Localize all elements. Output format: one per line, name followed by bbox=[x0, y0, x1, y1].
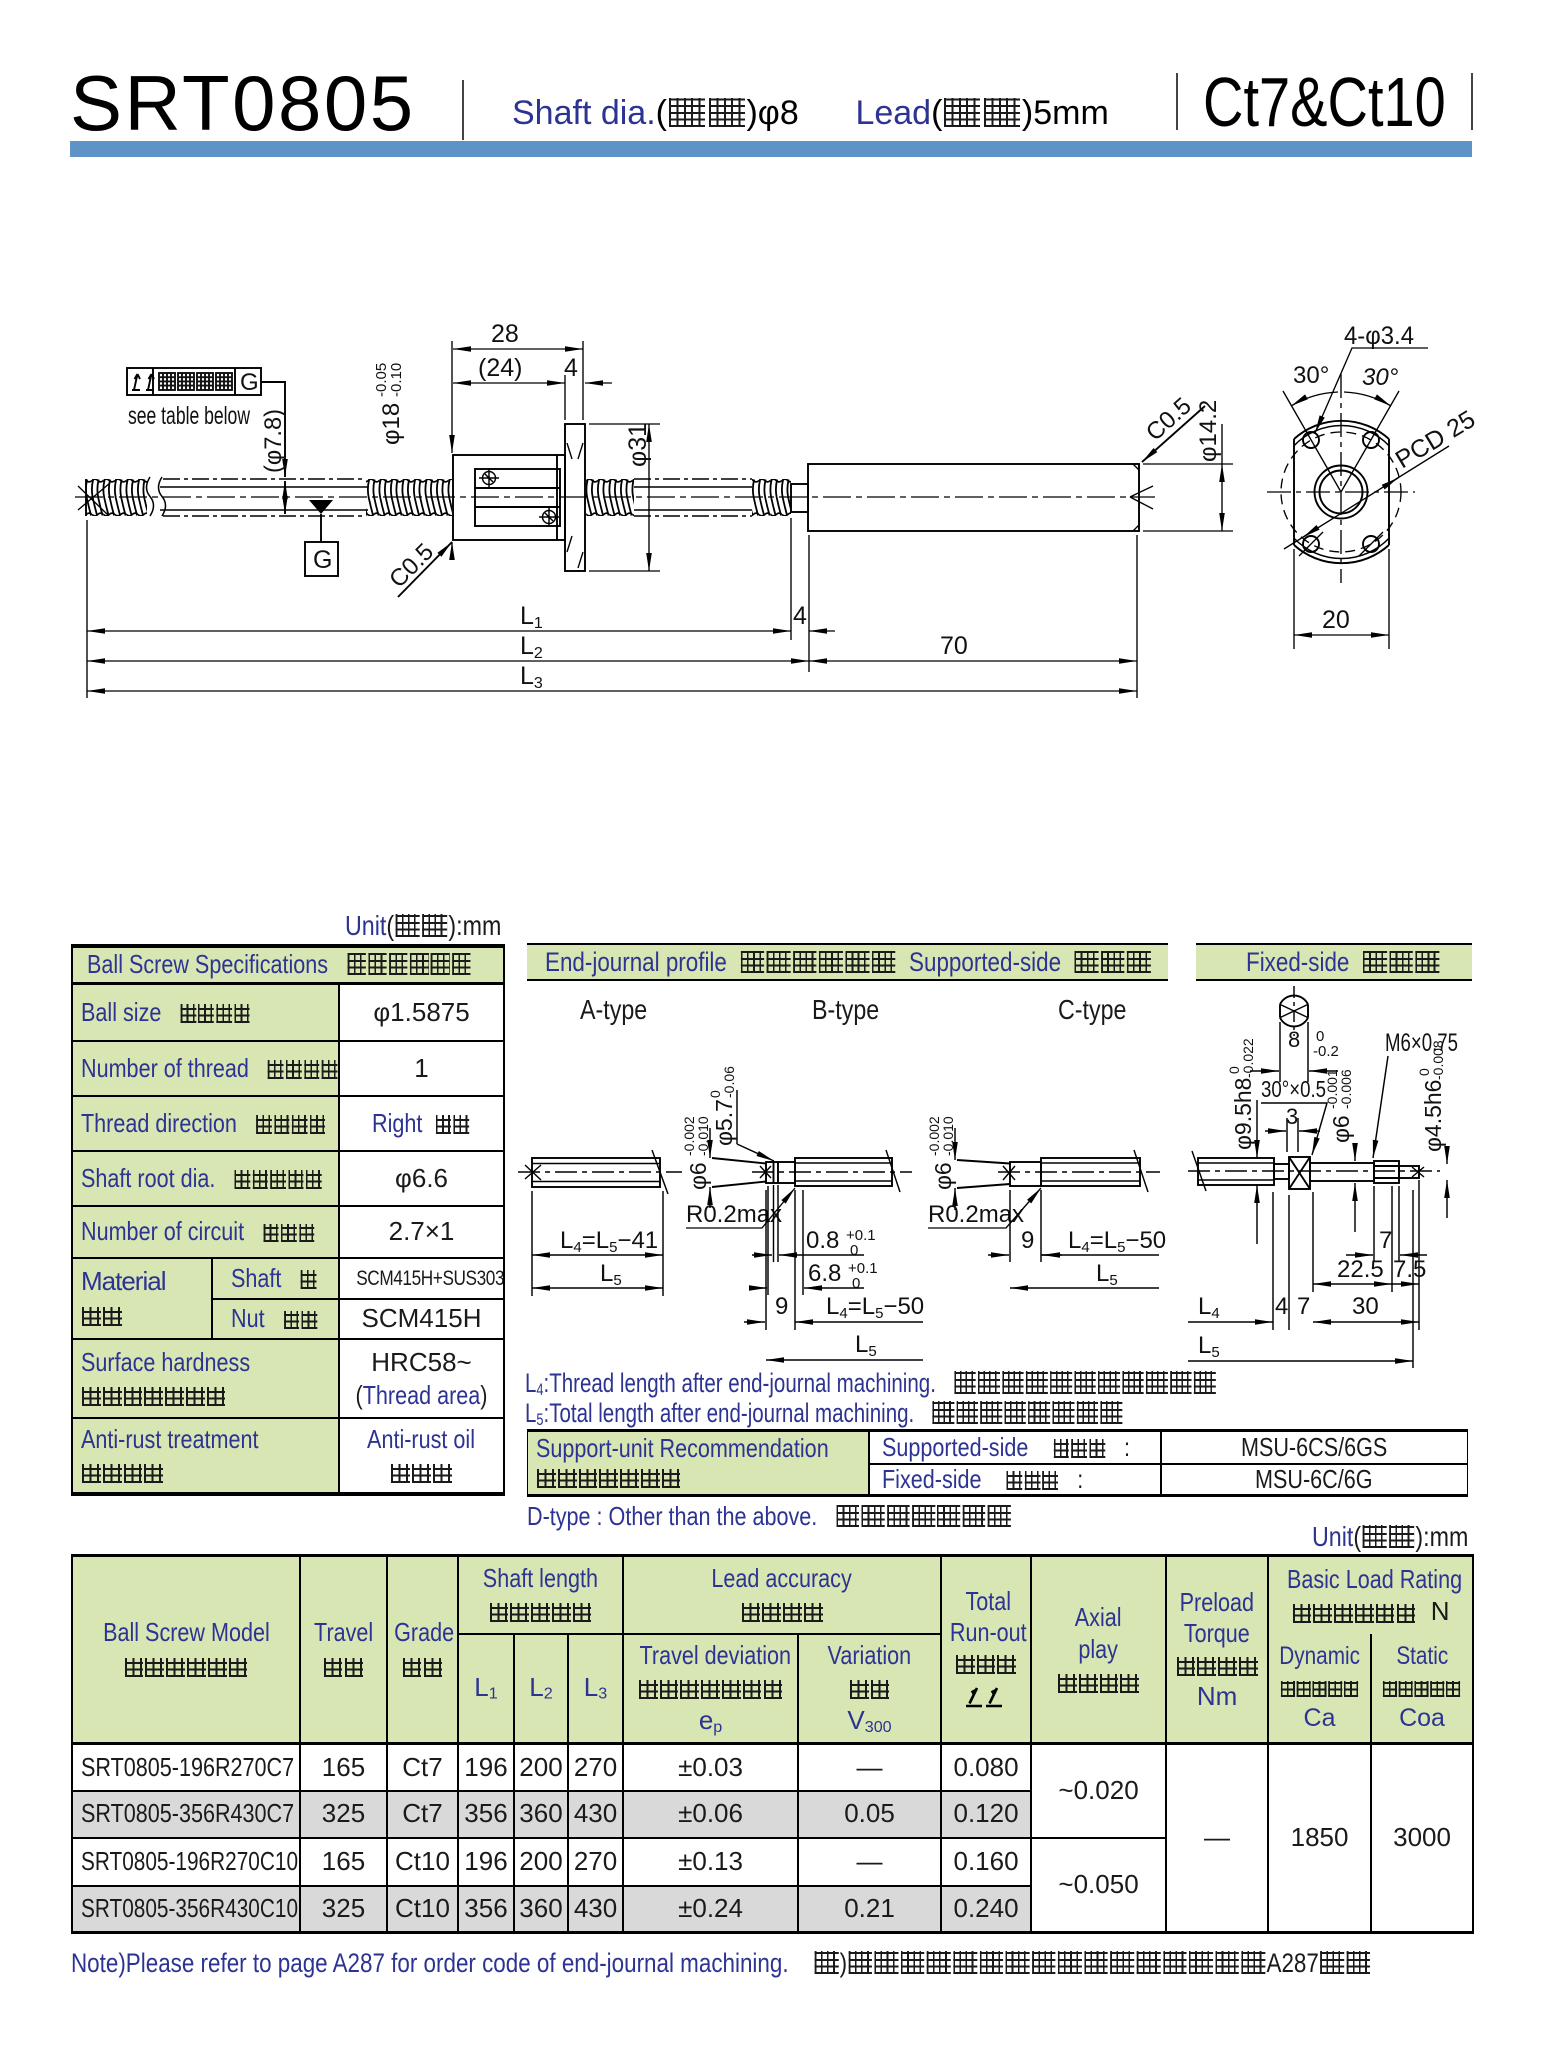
30 degree rays bbox=[1283, 391, 1399, 492]
reduced neck bbox=[791, 484, 808, 512]
Fixed-side neck bbox=[1274, 1164, 1289, 1179]
svg-text:L4=L5−50: L4=L5−50 bbox=[826, 1293, 924, 1322]
open section phantom 2 bbox=[634, 479, 752, 516]
svg-text:L5: L5 bbox=[855, 1331, 877, 1360]
Fixed-side M6 thread bbox=[1374, 1161, 1399, 1183]
svg-text:L4=L5−50: L4=L5−50 bbox=[1068, 1227, 1166, 1256]
svg-text:L2: L2 bbox=[520, 632, 543, 662]
angular dimension arcs bbox=[1291, 392, 1338, 406]
C-type journal bbox=[1003, 1162, 1041, 1186]
svg-text:L5: L5 bbox=[1198, 1332, 1220, 1361]
centerline of screw shaft bbox=[75, 496, 1155, 498]
A-type dim L4=L5-41 bbox=[532, 1227, 663, 1256]
svg-text:φ6: φ6 bbox=[685, 1162, 711, 1190]
C-type dim L5 bbox=[1010, 1260, 1159, 1289]
C-type R0.2max label bbox=[928, 1188, 1041, 1228]
svg-text:20: 20 bbox=[1322, 606, 1350, 634]
svg-text:28: 28 bbox=[491, 320, 519, 348]
Fixed-side dim phi4.5h6 bbox=[1416, 1040, 1447, 1218]
svg-text:-0.10: -0.10 bbox=[388, 363, 405, 397]
svg-text:9: 9 bbox=[1021, 1227, 1034, 1254]
svg-text:30°×0.5: 30°×0.5 bbox=[1261, 1076, 1326, 1102]
dimension phi18 bbox=[373, 341, 452, 560]
bolt holes bbox=[1299, 432, 1383, 556]
svg-text:4: 4 bbox=[793, 602, 807, 630]
dimension phi14.2 bbox=[1143, 400, 1233, 531]
B-type dim L5 bbox=[766, 1331, 923, 1360]
nut flange bbox=[565, 424, 585, 571]
svg-text:-0.06: -0.06 bbox=[721, 1066, 737, 1098]
C-type dim 9 and L4 bbox=[988, 1190, 1166, 1262]
svg-text:M6×0.75: M6×0.75 bbox=[1385, 1029, 1458, 1057]
svg-text:3: 3 bbox=[1286, 1104, 1298, 1129]
svg-text:φ6: φ6 bbox=[1328, 1115, 1354, 1143]
Fixed-side phi6 section bbox=[1310, 1163, 1374, 1181]
svg-text:L4=L5−41: L4=L5−41 bbox=[560, 1227, 658, 1256]
grease hole 2 bbox=[539, 507, 559, 527]
svg-text:(φ7.8): (φ7.8) bbox=[260, 409, 287, 473]
svg-text:C0.5: C0.5 bbox=[384, 538, 439, 593]
svg-text:6.8: 6.8 bbox=[808, 1260, 841, 1287]
chamfer label C0.5 (nut) bbox=[384, 538, 452, 597]
end journal cylinder bbox=[808, 464, 1139, 531]
Fixed-side dim 7 bbox=[1346, 1186, 1427, 1262]
surface finish callout box bbox=[127, 368, 261, 395]
C-type dim phi6 bbox=[926, 1116, 1010, 1210]
svg-text:φ31: φ31 bbox=[624, 423, 652, 467]
B-type R0.2max label bbox=[686, 1188, 795, 1228]
svg-text:φ4.5h6: φ4.5h6 bbox=[1420, 1080, 1446, 1152]
Fixed-side dim 8 bbox=[1250, 1022, 1339, 1082]
PCD 25 leader bbox=[1284, 446, 1449, 549]
B-type dim phi5.7 bbox=[707, 1066, 774, 1161]
screw thread section 3 (after flange) bbox=[586, 479, 634, 516]
svg-text:L5: L5 bbox=[1096, 1260, 1118, 1289]
G surface symbol triangle on centerline bbox=[305, 500, 338, 576]
Fixed-side thread section bbox=[1192, 1151, 1274, 1191]
svg-text:70: 70 bbox=[940, 632, 968, 660]
Fixed-side dim L5 bbox=[1188, 1190, 1413, 1368]
svg-text:φ14.2: φ14.2 bbox=[1195, 400, 1222, 462]
dimension L1 bbox=[87, 602, 835, 632]
svg-text:8: 8 bbox=[1288, 1027, 1300, 1052]
svg-text:L4: L4 bbox=[1198, 1293, 1220, 1322]
svg-text:see table below: see table below bbox=[128, 402, 251, 430]
A-type dim L5 bbox=[532, 1260, 663, 1289]
svg-text:22.5: 22.5 bbox=[1337, 1256, 1384, 1283]
svg-text:0: 0 bbox=[852, 1275, 860, 1292]
Fixed-side M6x0.75 label bbox=[1373, 1029, 1458, 1158]
Fixed-side dims L4 4 7 30 bbox=[1188, 1192, 1419, 1330]
dimension 20 (flange view) bbox=[1294, 549, 1389, 649]
dimension phi31 bbox=[589, 423, 660, 571]
extension lines for L dims bbox=[87, 518, 1137, 698]
C-type thread shaft bbox=[1041, 1150, 1148, 1192]
svg-text:G: G bbox=[240, 369, 259, 396]
svg-text:4: 4 bbox=[564, 354, 578, 382]
dimension L3 bbox=[87, 662, 1137, 692]
svg-text:φ6: φ6 bbox=[930, 1162, 956, 1190]
dimension (phi7.8) bbox=[260, 409, 287, 514]
Fixed-side collar with chamfer (X box) bbox=[1289, 1157, 1310, 1189]
svg-text:φ9.5h8: φ9.5h8 bbox=[1230, 1078, 1256, 1150]
svg-text:-0.022: -0.022 bbox=[1240, 1038, 1256, 1078]
svg-text:-0.2: -0.2 bbox=[1313, 1043, 1339, 1060]
B-type thread shaft bbox=[795, 1150, 900, 1192]
flange view centerlines bbox=[1340, 374, 1342, 583]
Fixed-side tip bbox=[1399, 1166, 1424, 1178]
svg-text:L5: L5 bbox=[600, 1260, 622, 1289]
B-type dim 6.8 bbox=[750, 1186, 878, 1295]
svg-text:9: 9 bbox=[775, 1293, 788, 1320]
bolt circle dashed bbox=[1281, 432, 1401, 552]
svg-text:30°: 30° bbox=[1293, 362, 1329, 389]
chamfer label C0.5 (end journal) bbox=[1141, 392, 1205, 462]
svg-text:PCD 25: PCD 25 bbox=[1391, 405, 1480, 474]
svg-text:30: 30 bbox=[1352, 1293, 1379, 1320]
svg-text:-0.010: -0.010 bbox=[940, 1116, 956, 1156]
B-type centerline bbox=[752, 1171, 912, 1173]
svg-text:30°: 30° bbox=[1362, 364, 1399, 391]
flange outer profile bbox=[1294, 421, 1389, 563]
shaft break squiggle bbox=[147, 477, 166, 516]
leader from callout to shaft bbox=[261, 382, 285, 477]
Fixed-side top view circle bbox=[1280, 986, 1308, 1036]
nut inner section bbox=[475, 469, 560, 526]
svg-text:7: 7 bbox=[1379, 1227, 1392, 1254]
svg-text:0.8: 0.8 bbox=[806, 1227, 839, 1254]
svg-text:G: G bbox=[313, 546, 332, 574]
B-type dim phi6 bbox=[681, 1116, 766, 1208]
A-type centerline bbox=[518, 1171, 682, 1173]
svg-text:-0.006: -0.006 bbox=[1338, 1069, 1354, 1109]
dimension L2 and 70 bbox=[87, 632, 1137, 662]
screw thread section 4 bbox=[752, 479, 791, 516]
svg-text:-0.010: -0.010 bbox=[695, 1116, 711, 1156]
B-type dim 9 and L4 bbox=[744, 1190, 924, 1330]
svg-text:7: 7 bbox=[1297, 1293, 1310, 1320]
Fixed-side dim 3 bbox=[1265, 1104, 1320, 1152]
callout CJK text 参照下表 bbox=[159, 373, 232, 390]
screw thread section 1 (left end) bbox=[86, 479, 147, 516]
Fixed-side dim phi6 (mid) bbox=[1324, 1069, 1355, 1232]
svg-text:0: 0 bbox=[850, 1242, 858, 1259]
grease hole 1 bbox=[479, 468, 499, 488]
right end center mark bbox=[1130, 486, 1153, 509]
svg-text:7.5: 7.5 bbox=[1393, 1256, 1426, 1283]
svg-text:φ18: φ18 bbox=[378, 403, 405, 445]
dimension (24) bbox=[453, 354, 612, 420]
Fixed-side centerline bbox=[1188, 1170, 1440, 1172]
svg-text:(24): (24) bbox=[478, 354, 522, 382]
svg-text:4-φ3.4: 4-φ3.4 bbox=[1344, 322, 1414, 350]
Fixed-side 30x0.5 chamfer label bbox=[1261, 1076, 1327, 1155]
svg-text:-0.008: -0.008 bbox=[1430, 1040, 1446, 1080]
A-type extension lines bbox=[532, 1191, 663, 1296]
B-type journal bbox=[760, 1162, 795, 1183]
open middle section phantom + root lines bbox=[163, 479, 366, 516]
center bore circles bbox=[1320, 471, 1363, 514]
svg-text:L1: L1 bbox=[520, 602, 543, 632]
svg-text:L3: L3 bbox=[520, 662, 543, 692]
screw thread section 2 (before nut) bbox=[366, 479, 452, 516]
Fixed-side dims 22.5 and 7.5 bbox=[1313, 1180, 1426, 1330]
Fixed-side dim phi9.5h8 bbox=[1226, 1038, 1257, 1244]
left end center mark bbox=[78, 483, 110, 515]
dimension 28 bbox=[453, 320, 583, 420]
ball nut body bbox=[453, 455, 565, 540]
B-type dim 0.8 bbox=[752, 1227, 876, 1259]
A-type shaft bbox=[525, 1150, 668, 1194]
B-type groove extension lines bbox=[774, 1185, 779, 1262]
svg-text:4: 4 bbox=[1275, 1293, 1288, 1320]
C-type centerline bbox=[998, 1171, 1160, 1173]
svg-text:φ5.7: φ5.7 bbox=[711, 1099, 737, 1146]
